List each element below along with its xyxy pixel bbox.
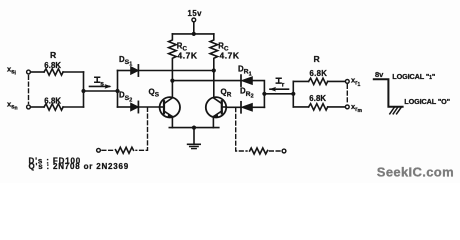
wire top rail bbox=[172, 33, 213, 35]
svg-text:6.8K: 6.8K bbox=[44, 96, 61, 105]
wire to bottom-right resistor bbox=[293, 106, 308, 108]
arrow Is bbox=[90, 85, 110, 87]
dashed line between output terminals bbox=[346, 85, 348, 104]
diode DR1 bbox=[242, 77, 253, 85]
diode DR2 bbox=[242, 104, 253, 112]
wire emitter rail bbox=[169, 127, 219, 129]
wire vertical right resistor bank bbox=[292, 81, 294, 107]
resistor left stub bbox=[115, 147, 133, 153]
arrow Ir bbox=[270, 88, 289, 90]
wire x_sn to resistor bbox=[31, 106, 44, 108]
svg-text:R: R bbox=[314, 54, 321, 64]
dashed wire left stub bbox=[101, 149, 113, 151]
label Is bbox=[95, 77, 100, 82]
wire vertical diode-gate left bbox=[117, 71, 119, 108]
wire DR2 to corner bbox=[252, 106, 264, 108]
dashed wire right stub bbox=[270, 150, 282, 152]
transistor QR bbox=[206, 97, 226, 117]
resistor 6.8K bottom-left bbox=[44, 104, 63, 110]
junction dot node A bbox=[81, 89, 85, 93]
node x_r1 terminal bbox=[345, 80, 349, 84]
svg-text:4.7K: 4.7K bbox=[178, 51, 198, 61]
svg-text:R: R bbox=[50, 50, 57, 60]
svg-text:Q's : 2N708 or 2N2369: Q's : 2N708 or 2N2369 bbox=[29, 162, 130, 171]
junction dot QS-collector/DR1 bbox=[170, 79, 174, 83]
logic level figure: 8v step bbox=[374, 79, 403, 107]
wire to DS1 bbox=[118, 70, 131, 72]
terminal right stub bbox=[282, 149, 286, 153]
wire to top-right resistor bbox=[293, 80, 308, 82]
resistor R 6.8K top-right bbox=[309, 78, 328, 84]
svg-text:DS1: DS1 bbox=[119, 55, 132, 68]
wire QR emitter down bbox=[212, 117, 214, 128]
svg-text:xrm: xrm bbox=[351, 102, 363, 114]
resistor R 6.8K top-left bbox=[44, 69, 63, 75]
svg-text:LOGICAL "1": LOGICAL "1" bbox=[392, 72, 435, 81]
wire to x_r1 bbox=[328, 80, 346, 82]
wire Ir bbox=[264, 93, 293, 95]
svg-text:8v: 8v bbox=[375, 70, 384, 79]
svg-text:6.8K: 6.8K bbox=[44, 61, 61, 70]
label Ir bbox=[276, 78, 281, 83]
diode DS1 bbox=[131, 67, 139, 75]
wire resistor to node A bbox=[63, 71, 83, 73]
diode DS2 bbox=[131, 103, 139, 111]
node x_rm terminal bbox=[345, 105, 349, 109]
svg-text:QS: QS bbox=[149, 88, 160, 99]
wire DR1 cross-coupling from QS collector bbox=[172, 80, 241, 82]
wire DR1 to corner bbox=[252, 81, 264, 108]
resistor right stub bbox=[250, 148, 268, 154]
wire to x_rm bbox=[328, 106, 346, 108]
wire vertical joining left rows bbox=[83, 72, 85, 107]
junction dot node B bbox=[115, 89, 119, 93]
wire DS2 to QS base bbox=[138, 106, 159, 108]
svg-text:s: s bbox=[100, 81, 104, 88]
ground bbox=[193, 128, 195, 145]
svg-text:6.8K: 6.8K bbox=[310, 69, 328, 78]
svg-text:DS2: DS2 bbox=[119, 91, 132, 104]
dashed line between input terminals bbox=[28, 76, 30, 104]
junction dot Ir left bbox=[262, 92, 266, 96]
junction dot Ir right bbox=[291, 92, 295, 96]
supply 15v terminal bbox=[192, 18, 196, 22]
transistor QS bbox=[160, 97, 180, 117]
svg-text:xr1: xr1 bbox=[351, 76, 361, 88]
wire QR base to DR2 bbox=[226, 106, 241, 108]
junction dot emitter rail bbox=[192, 126, 196, 130]
wire x_si to resistor bbox=[31, 71, 44, 73]
svg-text:xsi: xsi bbox=[7, 65, 17, 77]
svg-text:6.8K: 6.8K bbox=[309, 94, 326, 103]
dashed stub below QR base bbox=[236, 108, 247, 151]
svg-text:r: r bbox=[282, 81, 285, 88]
svg-text:QR: QR bbox=[221, 88, 232, 99]
svg-text:LOGICAL "O": LOGICAL "O" bbox=[404, 97, 450, 106]
svg-text:SeekIC.com: SeekIC.com bbox=[377, 165, 454, 180]
wire resistor to node A bbox=[63, 106, 83, 108]
svg-text:15v: 15v bbox=[188, 9, 203, 18]
node x_sn terminal bbox=[27, 105, 31, 109]
wire Is bbox=[84, 90, 118, 92]
junction dot DS1/QR-collector bbox=[212, 68, 216, 72]
svg-text:4.7K: 4.7K bbox=[220, 51, 240, 61]
wire QS emitter down bbox=[171, 117, 173, 128]
svg-text:xsn: xsn bbox=[7, 100, 18, 112]
resistor RC left bbox=[169, 34, 177, 97]
terminal left stub bbox=[97, 148, 101, 152]
wire 15v to rail bbox=[193, 22, 195, 34]
wire to DS2 bbox=[118, 106, 131, 108]
svg-text:DR2: DR2 bbox=[240, 87, 254, 100]
resistor 6.8K bottom-right bbox=[309, 104, 328, 110]
wire DS1 to QR collector bbox=[138, 70, 213, 72]
junction dot supply rail bbox=[192, 32, 196, 36]
node x_si terminal bbox=[27, 70, 31, 74]
ground hatch logic 0 bbox=[390, 108, 401, 114]
resistor RC right bbox=[210, 34, 218, 98]
dashed stub below QS base bbox=[136, 108, 148, 151]
svg-text:DR1: DR1 bbox=[238, 65, 252, 78]
